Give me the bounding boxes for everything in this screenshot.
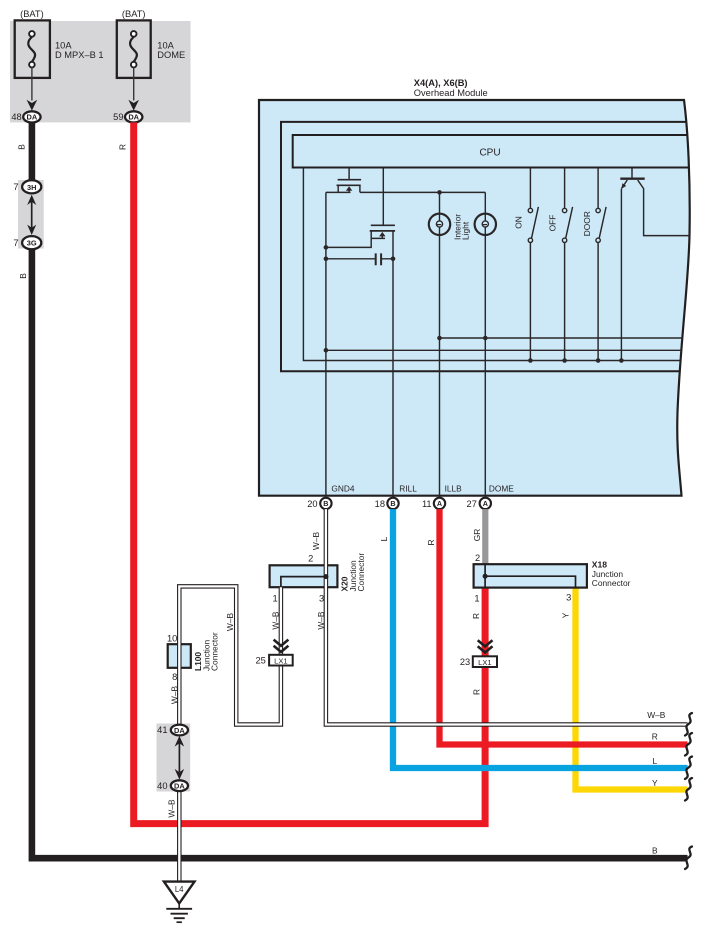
- svg-text:40: 40: [157, 781, 167, 791]
- svg-text:11: 11: [422, 499, 432, 509]
- svg-text:DOME: DOME: [489, 483, 514, 493]
- arrow chevrons to LX1 25: [274, 640, 289, 652]
- CPU box U1: [293, 135, 694, 168]
- wire CPU left output to switch bus: [303, 168, 694, 361]
- svg-text:B: B: [16, 144, 26, 150]
- svg-text:10: 10: [167, 633, 177, 643]
- svg-text:2: 2: [475, 553, 480, 563]
- connector 40 DA: [171, 780, 188, 791]
- bus line lamps to ILLB/DOME: [440, 337, 695, 339]
- arrow chevrons to LX1 23: [478, 640, 493, 652]
- svg-text:DA: DA: [174, 726, 185, 735]
- svg-text:Connector: Connector: [592, 578, 631, 588]
- svg-text:1: 1: [273, 593, 278, 603]
- svg-text:D MPX–B 1: D MPX–B 1: [55, 50, 104, 60]
- svg-text:1: 1: [474, 593, 479, 603]
- svg-text:Overhead Module: Overhead Module: [414, 88, 488, 98]
- capacitor C1: [326, 258, 393, 260]
- svg-text:W–B: W–B: [311, 532, 321, 551]
- wire L blue RILL to right edge: [393, 509, 688, 768]
- svg-text:LX1: LX1: [478, 658, 492, 667]
- wire gate lead of Q2: [382, 168, 384, 226]
- svg-text:10A: 10A: [157, 40, 174, 50]
- lamp 2 interior light: [484, 192, 486, 213]
- svg-text:CPU: CPU: [479, 148, 500, 159]
- connector 41 DA: [171, 725, 188, 736]
- svg-text:(BAT): (BAT): [122, 9, 146, 19]
- svg-text:A: A: [437, 499, 442, 508]
- wire fuse F2 to connector DA: [133, 67, 135, 100]
- svg-text:3: 3: [566, 593, 571, 603]
- overhead module body X4/X6: [259, 100, 690, 496]
- wire Y yellow from X18 pin 3: [576, 588, 688, 790]
- connector 59 DA: [125, 111, 142, 122]
- wire R red from DA59 to X18 pin 1: [134, 122, 485, 823]
- svg-text:W–B: W–B: [647, 710, 666, 720]
- switch DOOR: [597, 168, 599, 209]
- continuation squiggle W-B: [685, 713, 692, 736]
- X18 internal link: [484, 564, 486, 587]
- svg-text:L: L: [379, 536, 389, 541]
- svg-text:ON: ON: [513, 216, 523, 229]
- svg-text:10A: 10A: [55, 40, 72, 50]
- svg-text:X4(A), X6(B): X4(A), X6(B): [414, 78, 468, 88]
- wire W-B X20 pin1 detour through L100 to DA41: [179, 586, 281, 724]
- svg-text:25: 25: [255, 655, 265, 665]
- svg-text:3: 3: [319, 593, 324, 603]
- svg-text:B: B: [652, 845, 658, 855]
- svg-text:Light: Light: [461, 221, 471, 240]
- svg-text:DOOR: DOOR: [582, 211, 592, 236]
- fuse block background (junction block): [10, 21, 191, 122]
- wire between DA41 and DA40: [178, 742, 180, 772]
- wire GR gray DOME to X18 pin 2: [482, 509, 488, 564]
- wire ground line to GND4: [325, 192, 327, 497]
- svg-text:3H: 3H: [27, 183, 36, 192]
- svg-text:W–B: W–B: [169, 686, 179, 705]
- wire between 3H and 3G: [31, 201, 33, 228]
- svg-text:23: 23: [460, 657, 470, 667]
- wire W-B DA40 to ground: [177, 791, 182, 882]
- wire Q2 drain to RILL: [392, 231, 394, 497]
- svg-text:3G: 3G: [27, 239, 37, 248]
- svg-text:L4: L4: [175, 885, 184, 894]
- junction connector X20: [270, 565, 338, 587]
- svg-text:W–B: W–B: [316, 611, 326, 630]
- svg-text:LX1: LX1: [274, 656, 288, 665]
- module pin RILL: [392, 496, 394, 498]
- svg-text:DA: DA: [174, 782, 185, 791]
- svg-text:ILLB: ILLB: [445, 483, 463, 493]
- svg-text:18: 18: [375, 499, 385, 509]
- wire gate lead of Q1: [348, 168, 350, 180]
- connector pair DA41/DA40 background: [157, 724, 191, 792]
- svg-text:27: 27: [467, 499, 477, 509]
- wire Q1 output to lamps: [360, 191, 485, 193]
- module pin GND4: [325, 496, 327, 498]
- svg-text:Y: Y: [652, 778, 658, 788]
- svg-text:20: 20: [307, 499, 317, 509]
- lamp 1 interior light: [439, 192, 441, 213]
- svg-text:W–B: W–B: [167, 799, 177, 818]
- node dot lamp supply: [437, 190, 442, 195]
- svg-text:Connector: Connector: [210, 632, 220, 671]
- svg-text:R: R: [471, 613, 481, 619]
- connector 48 DA: [23, 111, 40, 122]
- ground L4: [164, 882, 195, 904]
- continuation squiggle Y: [685, 778, 692, 801]
- svg-text:OFF: OFF: [548, 215, 558, 232]
- svg-text:Connector: Connector: [356, 553, 366, 592]
- svg-text:8: 8: [172, 672, 177, 682]
- svg-text:GR: GR: [472, 529, 482, 542]
- svg-text:R: R: [652, 732, 658, 742]
- svg-text:W–B: W–B: [225, 613, 235, 632]
- svg-text:R: R: [118, 144, 128, 150]
- svg-text:B: B: [18, 273, 28, 279]
- svg-text:DA: DA: [128, 113, 139, 122]
- junction connector X18: [474, 564, 587, 587]
- continuation squiggle R: [685, 733, 692, 756]
- wire B black from DA48 to 3H: [29, 122, 36, 181]
- svg-text:R: R: [426, 539, 436, 545]
- svg-text:L: L: [652, 756, 657, 766]
- svg-text:W–B: W–B: [271, 611, 281, 630]
- connector 23 LX1: [473, 656, 497, 667]
- continuation squiggle B: [685, 847, 692, 870]
- module pin ILLB: [439, 496, 441, 498]
- junction dots on ground line: [324, 245, 329, 250]
- X20 internal link: [281, 577, 326, 588]
- svg-text:DOME: DOME: [157, 50, 185, 60]
- switch OFF: [564, 168, 566, 209]
- svg-text:R: R: [472, 689, 482, 695]
- mosfet Q1: [338, 179, 362, 181]
- label Interior Light: [452, 214, 470, 240]
- svg-text:Y: Y: [561, 612, 571, 618]
- svg-text:7: 7: [13, 238, 18, 248]
- connector 7 3H: [22, 180, 41, 193]
- wire W-B GND4 through X20 pin3 to right edge: [326, 509, 688, 724]
- wire R red ILLB to right edge: [440, 509, 688, 744]
- module pin DOME: [484, 496, 486, 498]
- svg-text:2: 2: [308, 554, 313, 564]
- svg-text:7: 7: [13, 182, 18, 192]
- wire B black main run to right edge: [32, 249, 688, 858]
- junction connector L100: [168, 644, 191, 668]
- svg-text:RILL: RILL: [399, 483, 417, 493]
- svg-text:B: B: [323, 499, 328, 508]
- wire fuse F1 to connector DA: [31, 67, 33, 100]
- svg-text:A: A: [483, 499, 488, 508]
- connector 25 LX1: [269, 655, 293, 666]
- svg-text:(BAT): (BAT): [20, 9, 44, 19]
- switch ON: [529, 168, 531, 209]
- svg-text:B: B: [390, 499, 395, 508]
- mosfet Q2: [371, 224, 395, 226]
- inner shield frame: [281, 122, 694, 371]
- connector 7 3G: [22, 236, 41, 249]
- svg-text:41: 41: [157, 725, 167, 735]
- transistor Q3: [631, 168, 633, 178]
- svg-text:59: 59: [113, 112, 123, 122]
- continuation squiggle L: [685, 757, 692, 780]
- connector pair 3H/3G background: [18, 180, 44, 249]
- svg-text:GND4: GND4: [331, 483, 354, 493]
- bus line ground GND4: [326, 349, 694, 351]
- svg-text:48: 48: [11, 112, 21, 122]
- svg-text:DA: DA: [27, 113, 38, 122]
